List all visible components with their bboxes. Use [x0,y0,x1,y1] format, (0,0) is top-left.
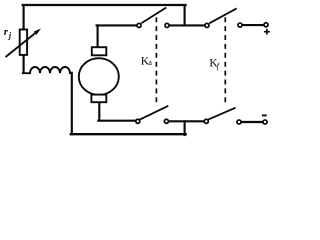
dashed link Kf [224,17,226,104]
resistor Rj body [20,30,27,55]
switch Ka top left contact [137,23,141,27]
wire armature bottom lead [98,102,100,120]
dashed link Ka [155,17,157,103]
switch Ka bottom left contact [136,119,140,123]
wire armature top horizontal [97,24,137,26]
wire junction riser top [184,5,186,25]
motor brush top [92,47,107,55]
inductor field winding [23,67,70,73]
motor armature M [79,58,119,95]
plus sign [264,29,270,35]
switch Ka top right contact [165,23,169,27]
wire junction riser bottom [184,121,186,135]
wire Kf-bottom contact to minus terminal [241,121,262,123]
switch Kf top blade [209,8,236,23]
motor brush bottom [91,95,106,103]
resistor Rj arrow [6,29,42,58]
switch Ka bottom blade [139,106,168,120]
switch Ka bottom right contact [164,119,168,123]
switch Kf bottom blade [208,108,235,120]
svg-text:a: a [148,58,152,67]
wire bottom rail [71,133,186,135]
switch Kf top left contact [205,23,209,27]
wire armature bottom horizontal [98,120,135,122]
switch Kf bottom right contact [237,120,241,124]
terminal plus circle [264,23,268,27]
switch Ka top blade [141,8,166,24]
switch Kf top right contact [238,23,242,27]
wire resistor top lead [23,5,25,30]
wire Ka-bottom to Kf-bottom [169,120,204,122]
wire top rail [23,4,186,6]
wire field right lead [71,73,73,134]
wire resistor bottom lead [23,55,25,73]
switch Kf bottom left contact [204,119,208,123]
minus sign [262,114,267,116]
wire armature top lead [97,25,99,47]
terminal minus circle [263,120,267,124]
wire Ka-top to Kf-top [169,24,205,26]
wire Kf-top contact to plus terminal [242,24,264,26]
